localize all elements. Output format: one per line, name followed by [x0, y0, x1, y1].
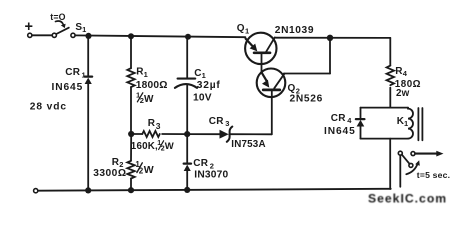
svg-text:2w: 2w: [396, 88, 410, 99]
svg-text:CR: CR: [331, 113, 346, 124]
relay K1 coil box: [361, 108, 414, 139]
junction R1/R2/R3 node: [128, 131, 134, 137]
svg-text:3300Ω: 3300Ω: [93, 168, 126, 179]
wire: [32, 34, 52, 36]
svg-text:CR: CR: [65, 67, 80, 78]
wire collector tie: [329, 38, 331, 74]
svg-text:28 vdc: 28 vdc: [30, 102, 67, 113]
junction C1 top: [185, 34, 191, 40]
wire top rail right: [275, 37, 390, 39]
svg-text:t=O: t=O: [50, 12, 66, 22]
transistor Q1 2N1039: [237, 23, 314, 64]
switch S1: [50, 12, 86, 38]
svg-text:Q: Q: [288, 83, 296, 94]
resistor R4 180 ohm 2w: [387, 38, 421, 108]
svg-text:1: 1: [82, 25, 86, 34]
wire top rail left: [75, 35, 245, 37]
svg-text:SeekIC.com: SeekIC.com: [368, 191, 447, 205]
svg-text:Q: Q: [237, 23, 245, 34]
svg-text:1: 1: [144, 70, 148, 79]
svg-text:4: 4: [347, 116, 352, 125]
svg-text:W: W: [144, 164, 154, 176]
svg-text:C: C: [194, 68, 201, 79]
diode CR1 1N645: [52, 36, 93, 191]
svg-text:160K,: 160K,: [131, 141, 158, 152]
svg-text:IN645: IN645: [52, 82, 84, 93]
resistor R1 1800 ohm 1/2W: [127, 36, 167, 134]
svg-text:t=5 sec.: t=5 sec.: [417, 170, 450, 180]
svg-text:IN645: IN645: [324, 126, 356, 137]
resistor R2 3300 ohm 1/2W: [93, 134, 154, 190]
junction R1 top: [128, 33, 134, 39]
svg-text:3: 3: [225, 119, 229, 128]
svg-text:W: W: [165, 141, 174, 152]
junction C1/CR2/R3 node: [184, 131, 190, 137]
svg-text:32µf: 32µf: [197, 80, 221, 91]
resistor R3 160K 1/2W: [131, 118, 187, 152]
svg-text:1: 1: [404, 119, 408, 128]
wire: [284, 73, 330, 75]
junction CR1 bottom: [85, 187, 91, 193]
wire relay to rail: [389, 139, 391, 189]
svg-text:R: R: [148, 118, 156, 129]
svg-text:4: 4: [403, 69, 408, 78]
svg-text:W: W: [144, 94, 154, 105]
junction R2 bottom: [128, 187, 134, 193]
relay core bars: [418, 108, 422, 140]
svg-text:1: 1: [245, 26, 249, 35]
transistor Q2 2N526: [257, 64, 323, 105]
svg-text:IN3070: IN3070: [194, 170, 228, 181]
svg-text:2N526: 2N526: [290, 94, 324, 105]
svg-text:10V: 10V: [193, 92, 212, 103]
svg-text:CR: CR: [193, 158, 208, 169]
svg-text:3: 3: [156, 121, 161, 131]
junction S1/CR1 node: [85, 33, 91, 39]
junction collector node: [327, 35, 333, 41]
svg-text:CR: CR: [209, 116, 224, 127]
relay contact switch t=5sec: [398, 151, 450, 187]
svg-text:1800Ω: 1800Ω: [136, 80, 168, 91]
capacitor C1 32uf 10V: [175, 37, 221, 135]
diode CR4 1N645 flyback: [324, 113, 364, 137]
diode CR3 1N753A zener: [187, 116, 272, 150]
svg-text:IN753A: IN753A: [231, 139, 265, 150]
svg-text:1: 1: [202, 71, 206, 80]
diode CR2 1N3070: [184, 134, 229, 190]
svg-text:2N1039: 2N1039: [275, 25, 314, 36]
bottom rail wire: [38, 189, 391, 191]
junction CR2 bottom: [184, 187, 190, 193]
terminal negative: [34, 189, 38, 193]
wire Q2 base riser: [271, 97, 273, 134]
svg-text:1: 1: [82, 70, 86, 79]
terminal + (positive 28 vdc input): [25, 19, 34, 37]
